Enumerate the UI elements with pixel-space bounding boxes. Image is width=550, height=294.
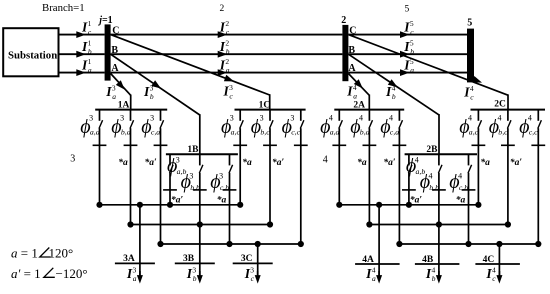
svg-text:a: a	[133, 274, 137, 283]
svg-text:*a: *a	[242, 157, 252, 168]
transformer element phi^3_b,b of group 1B	[193, 154, 207, 224]
svg-text:b: b	[410, 47, 414, 56]
node junction at (538,244)	[535, 241, 541, 247]
node junction at (160,244)	[157, 241, 163, 247]
branch label Branch=1	[42, 2, 85, 14]
multiplier labels of group 2A	[357, 157, 396, 168]
current arrow I_a^2	[218, 69, 228, 76]
transformer group label 1C	[259, 101, 271, 111]
current arrow I_a^4 output	[376, 271, 382, 284]
svg-text:a: a	[112, 92, 116, 101]
svg-text:4: 4	[389, 114, 393, 123]
svg-text:3: 3	[260, 114, 264, 123]
current label I_b^4 output	[425, 266, 436, 284]
node junction at (100,205)	[96, 202, 102, 208]
current arrow I_b^4 output	[436, 271, 442, 284]
svg-text:b: b	[150, 92, 154, 101]
current arrow I_b^2	[218, 51, 228, 58]
current label I_b^4	[385, 84, 396, 102]
node junction at (258,244)	[255, 241, 261, 247]
svg-text:a: a	[410, 66, 414, 75]
current arrow I_a^3 output	[137, 271, 143, 284]
svg-text:*a: *a	[118, 157, 128, 168]
svg-text:*a: *a	[357, 157, 367, 168]
svg-text:*a: *a	[480, 157, 490, 168]
svg-text:4: 4	[415, 156, 419, 165]
value label phi^4_b,c	[489, 114, 508, 138]
transformer element phi^4_c,b of group 2B	[462, 154, 476, 244]
svg-text:c,a: c,a	[151, 128, 160, 137]
svg-text:j=1: j=1	[97, 15, 112, 26]
current label I_a^3	[105, 84, 116, 102]
svg-text:3: 3	[70, 154, 75, 165]
terminal bar 3A	[115, 262, 155, 264]
svg-text:a,c: a,c	[231, 128, 241, 137]
transformer element phi^4_b,b of group 2B	[432, 154, 446, 224]
wire output riser 3B	[199, 225, 201, 278]
svg-text:3: 3	[219, 172, 223, 181]
transformer element phi^4_c,c of group 2C	[531, 110, 545, 244]
wire phase B bus 1 to bus 2	[111, 53, 343, 55]
svg-text:2A: 2A	[353, 101, 365, 111]
transformer element phi^4_a,a of group 2A	[332, 110, 346, 205]
transformer group 2B top bus	[405, 153, 477, 155]
value label phi^4_a,b	[406, 155, 425, 177]
value label phi^4_b,b	[420, 171, 439, 193]
svg-text:c,c: c,c	[291, 128, 300, 137]
svg-text:b: b	[432, 274, 436, 283]
branch label 5	[405, 5, 410, 15]
transformer element phi^3_c,a of group 1A	[154, 110, 168, 244]
svg-text:3: 3	[189, 172, 193, 181]
wire phase C substation to bus 1	[59, 34, 105, 36]
value label phi^3_c,c	[282, 114, 301, 138]
current label I_a^1	[81, 57, 92, 75]
svg-text:2C: 2C	[494, 100, 506, 110]
load number 3	[70, 154, 75, 165]
node junction at (270,224)	[267, 221, 273, 227]
terminal label 4B	[422, 255, 434, 265]
svg-text:a: a	[88, 66, 92, 75]
wire output riser 3A	[139, 205, 141, 277]
value label phi^3_b,c	[251, 114, 270, 138]
svg-text:b,a: b,a	[121, 128, 131, 137]
wire phase B substation to bus 1	[59, 53, 105, 55]
value label phi^4_b,a	[350, 114, 369, 138]
svg-text:a = 1: a = 1	[11, 246, 38, 261]
terminal label 4A	[362, 255, 374, 265]
node junction at (200,224)	[197, 221, 203, 227]
transformer group 1C top bus	[235, 109, 306, 111]
svg-text:b,b: b,b	[190, 183, 200, 192]
svg-text:b: b	[88, 47, 92, 56]
transformer element phi^3_c,c of group 1C	[294, 110, 308, 244]
svg-text:*a′: *a′	[510, 157, 523, 168]
current label I_b^1	[81, 39, 92, 57]
svg-text:4B: 4B	[422, 255, 434, 265]
transformer element phi^3_b,a of group 1A	[124, 110, 138, 225]
terminal bar 3C	[233, 262, 273, 264]
current label I_c^3	[223, 83, 234, 101]
svg-text:−120°: −120°	[56, 266, 88, 281]
transformer element phi^3_c,b of group 1B	[223, 154, 237, 244]
wire secondary phase-a bus of load 4	[339, 204, 478, 206]
svg-text:4: 4	[359, 114, 363, 123]
bus 5 bar	[467, 29, 474, 83]
equation a-prime = 1 angle -120deg	[11, 266, 88, 281]
current arrow I_a^4	[354, 79, 363, 88]
svg-text:C: C	[112, 25, 119, 36]
svg-text:Branch=1: Branch=1	[42, 2, 85, 14]
multiplier labels of group 2C	[480, 157, 522, 168]
svg-text:*a′: *a′	[145, 157, 158, 168]
phase label B at bus2	[348, 45, 355, 56]
current label I_a^4	[346, 83, 357, 101]
svg-text:5: 5	[467, 18, 472, 29]
phase label C at bus2	[349, 25, 356, 36]
value label phi^3_a,a	[80, 114, 99, 138]
current arrow I_b^1	[76, 51, 86, 58]
svg-text:3: 3	[120, 114, 124, 123]
wire phase B bus 2 to bus 5	[348, 53, 467, 55]
terminal label 3C	[241, 254, 253, 264]
multiplier labels of group 1A	[118, 157, 157, 168]
svg-text:c,c: c,c	[529, 128, 538, 137]
value label phi^3_a,c	[221, 114, 240, 138]
current arrow I_c^3 output	[255, 271, 261, 284]
svg-text:a,c: a,c	[469, 128, 479, 137]
svg-text:A: A	[348, 63, 356, 74]
current label I_a^3 output	[126, 266, 137, 284]
svg-text:3: 3	[176, 156, 180, 165]
wire diagonal I_c^3	[111, 35, 270, 110]
multiplier labels of group 1B	[171, 195, 226, 206]
node junction at (379,205)	[376, 202, 382, 208]
svg-text:B: B	[111, 45, 118, 56]
svg-text:c,a: c,a	[390, 128, 399, 137]
current label I_b^3	[143, 84, 154, 102]
value label phi^3_c,b	[210, 171, 229, 193]
terminal bar 4A	[355, 263, 400, 265]
value label phi^4_a,a	[320, 114, 339, 138]
svg-text:4: 4	[329, 114, 333, 123]
current arrow I_c^2	[218, 31, 228, 38]
transformer group 1B top bus	[166, 153, 238, 155]
wire diagonal I_b^3	[111, 54, 200, 154]
svg-text:4A: 4A	[362, 255, 374, 265]
svg-text:A: A	[111, 63, 119, 74]
current arrow I_b^3 output	[197, 271, 203, 284]
current arrow I_a^3	[116, 80, 125, 89]
svg-text:3A: 3A	[123, 254, 135, 264]
current label I_c^3 output	[244, 266, 255, 284]
node junction at (478,205)	[475, 202, 481, 208]
svg-text:1C: 1C	[259, 101, 271, 111]
value label phi^4_c,b	[449, 171, 468, 193]
current arrow I_c^5	[400, 31, 410, 38]
bus 1 label j=1	[97, 15, 112, 26]
wire output riser 4A	[378, 205, 380, 277]
svg-text:b: b	[193, 274, 197, 283]
wire diagonal I_a^3	[111, 74, 131, 110]
wire phase C bus 1 to bus 2	[111, 34, 343, 36]
svg-text:a: a	[372, 274, 376, 283]
svg-text:b,c: b,c	[260, 128, 270, 137]
terminal label 3B	[183, 254, 195, 264]
wire output riser 4B	[438, 225, 440, 278]
wire output riser 3C	[257, 244, 259, 277]
current arrow I_b^5	[400, 51, 410, 58]
node junction at (230,244)	[226, 241, 232, 247]
node junction at (339,205)	[336, 202, 342, 208]
phase label B at bus1	[111, 45, 118, 56]
current label I_c^2	[219, 19, 230, 37]
svg-text:a: a	[353, 92, 357, 101]
equation a = 1 angle 120deg	[11, 246, 73, 261]
svg-text:c,b: c,b	[459, 183, 468, 192]
svg-text:4: 4	[323, 155, 328, 166]
transformer element phi^3_b,c of group 1C	[263, 110, 277, 225]
bus 5 label	[467, 18, 472, 29]
node junction at (369,224)	[366, 221, 372, 227]
svg-text:3C: 3C	[241, 254, 253, 264]
current arrow I_c^3	[224, 75, 234, 82]
wire secondary phase-b bus of load 4	[369, 224, 508, 226]
wire secondary phase-c bus of load 3	[161, 243, 301, 245]
current label I_c^4 output	[485, 266, 496, 284]
svg-text:2: 2	[220, 4, 225, 14]
value label phi^3_b,b	[181, 171, 200, 193]
wire phase A substation to bus 1	[59, 72, 105, 74]
phase label C at bus1	[112, 25, 119, 36]
svg-text:1B: 1B	[187, 145, 199, 155]
svg-text:4: 4	[468, 114, 472, 123]
transformer element phi^3_a,c of group 1C	[233, 110, 247, 205]
node junction at (468,244)	[465, 241, 471, 247]
transformer element phi^4_b,c of group 2C	[501, 110, 515, 225]
svg-text:3: 3	[150, 114, 154, 123]
current arrow I_c^4 output	[496, 271, 502, 284]
current label I_a^2	[219, 57, 230, 75]
svg-text:3: 3	[230, 114, 234, 123]
transformer element phi^4_c,a of group 2A	[393, 110, 407, 244]
transformer element phi^4_b,a of group 2A	[363, 110, 377, 225]
current arrow I_b^4	[388, 79, 398, 87]
node junction at (130,224)	[127, 221, 133, 227]
svg-text:a′ = 1: a′ = 1	[11, 266, 41, 281]
wire phase C bus 2 to bus 5	[348, 34, 467, 36]
svg-text:*a′: *a′	[272, 157, 285, 168]
terminal label 3A	[123, 254, 135, 264]
node junction at (409,205)	[406, 202, 412, 208]
current label I_a^4 output	[365, 266, 376, 284]
bus 1 bar	[105, 24, 111, 80]
terminal bar 3B	[175, 262, 215, 264]
svg-text:3B: 3B	[183, 254, 195, 264]
current label I_b^5	[403, 39, 414, 57]
node junction at (508,224)	[505, 221, 511, 227]
load number 4	[323, 155, 328, 166]
svg-text:a,a: a,a	[90, 128, 100, 137]
svg-text:a: a	[226, 66, 230, 75]
transformer group label 2B	[426, 145, 438, 155]
wire diagonal I_a^4	[348, 74, 369, 110]
current arrow I_a^1	[76, 69, 86, 76]
value label phi^4_c,c	[519, 114, 538, 138]
node junction at (499,244)	[496, 241, 502, 247]
svg-text:3: 3	[290, 114, 294, 123]
transformer element phi^3_a,a of group 1A	[93, 110, 107, 205]
svg-text:*a′: *a′	[383, 157, 396, 168]
value label phi^3_b,a	[111, 114, 130, 138]
current label I_c^1	[81, 19, 92, 37]
multiplier labels of group 1C	[242, 157, 284, 168]
current label I_b^3 output	[186, 266, 197, 284]
value label phi^3_c,a	[141, 114, 160, 138]
svg-text:2B: 2B	[426, 145, 438, 155]
svg-text:4: 4	[429, 172, 433, 181]
node junction at (399,244)	[396, 241, 402, 247]
transformer group 2C top bus	[471, 109, 546, 111]
current label I_c^4	[463, 84, 474, 102]
svg-text:4: 4	[458, 172, 462, 181]
transformer group 1A top bus	[95, 109, 167, 111]
wire phase A bus 2 to bus 5	[348, 72, 467, 74]
node junction at (301,244)	[298, 241, 304, 247]
value label phi^4_c,a	[380, 114, 399, 138]
wire phase A bus 1 to bus 2	[111, 72, 343, 74]
transformer group label 2C	[494, 100, 506, 110]
svg-text:a,a: a,a	[330, 128, 340, 137]
branch label 2	[220, 4, 225, 14]
current label I_c^5	[403, 19, 414, 37]
transformer element phi^3_a,b of group 1B	[163, 154, 177, 205]
transformer element phi^4_a,b of group 2B	[402, 154, 416, 205]
substation box	[3, 28, 58, 76]
multiplier labels of group 2B	[410, 195, 466, 206]
value label phi^3_a,b	[167, 155, 186, 177]
svg-text:b,b: b,b	[429, 183, 439, 192]
svg-text:4: 4	[528, 114, 532, 123]
wire diagonal I_c^4	[348, 35, 508, 110]
svg-text:4C: 4C	[483, 255, 495, 265]
terminal bar 4C	[475, 263, 520, 265]
transformer group 2A top bus	[334, 109, 404, 111]
current arrow I_b^3	[151, 80, 161, 88]
transformer element phi^4_a,c of group 2C	[472, 110, 486, 205]
transformer group label 1B	[187, 145, 199, 155]
svg-text:b: b	[392, 92, 396, 101]
svg-text:4: 4	[498, 114, 502, 123]
terminal label 4C	[483, 255, 495, 265]
node junction at (240,205)	[237, 202, 243, 208]
wire secondary phase-b bus of load 3	[131, 224, 271, 226]
svg-text:c,b: c,b	[220, 183, 229, 192]
current arrow I_c^4	[472, 76, 482, 83]
current label I_b^2	[219, 39, 230, 57]
phase label A at bus2	[348, 63, 356, 74]
svg-text:1A: 1A	[118, 101, 130, 111]
svg-text:b,a: b,a	[360, 128, 370, 137]
wire output riser 4C	[498, 244, 500, 277]
transformer group label 2A	[353, 101, 365, 111]
svg-text:Substation: Substation	[8, 50, 57, 62]
wire secondary phase-c bus of load 4	[399, 243, 538, 245]
value label phi^4_a,c	[459, 114, 478, 138]
current label I_a^5	[403, 57, 414, 75]
node junction at (140,205)	[137, 202, 143, 208]
bus 2 bar	[342, 25, 348, 81]
current arrow I_c^1	[76, 31, 86, 38]
transformer group label 1A	[118, 101, 130, 111]
svg-text:b: b	[226, 47, 230, 56]
phase label A at bus1	[111, 63, 119, 74]
terminal bar 4B	[415, 263, 460, 265]
svg-text:5: 5	[405, 5, 410, 15]
wire secondary phase-a bus of load 3	[100, 204, 241, 206]
svg-text:3: 3	[89, 114, 93, 123]
node junction at (439,224)	[436, 221, 442, 227]
bus 2 label	[341, 15, 346, 26]
svg-text:2: 2	[341, 15, 346, 26]
node junction at (170,205)	[167, 202, 173, 208]
svg-text:b,c: b,c	[498, 128, 508, 137]
current arrow I_a^5	[400, 69, 410, 76]
wire diagonal I_b^4	[348, 54, 439, 154]
svg-text:120°: 120°	[49, 246, 74, 261]
